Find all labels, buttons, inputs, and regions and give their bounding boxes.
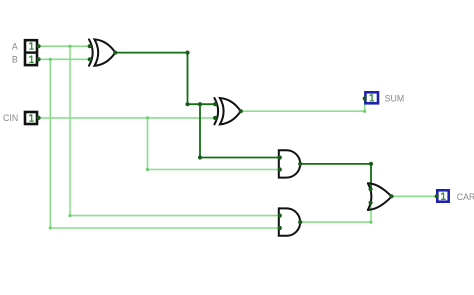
svg-text:B: B [12,55,18,65]
svg-text:A: A [12,41,18,51]
svg-text:CARRY: CARRY [457,192,474,202]
svg-text:SUM: SUM [385,93,405,103]
svg-text:CIN: CIN [3,113,18,123]
